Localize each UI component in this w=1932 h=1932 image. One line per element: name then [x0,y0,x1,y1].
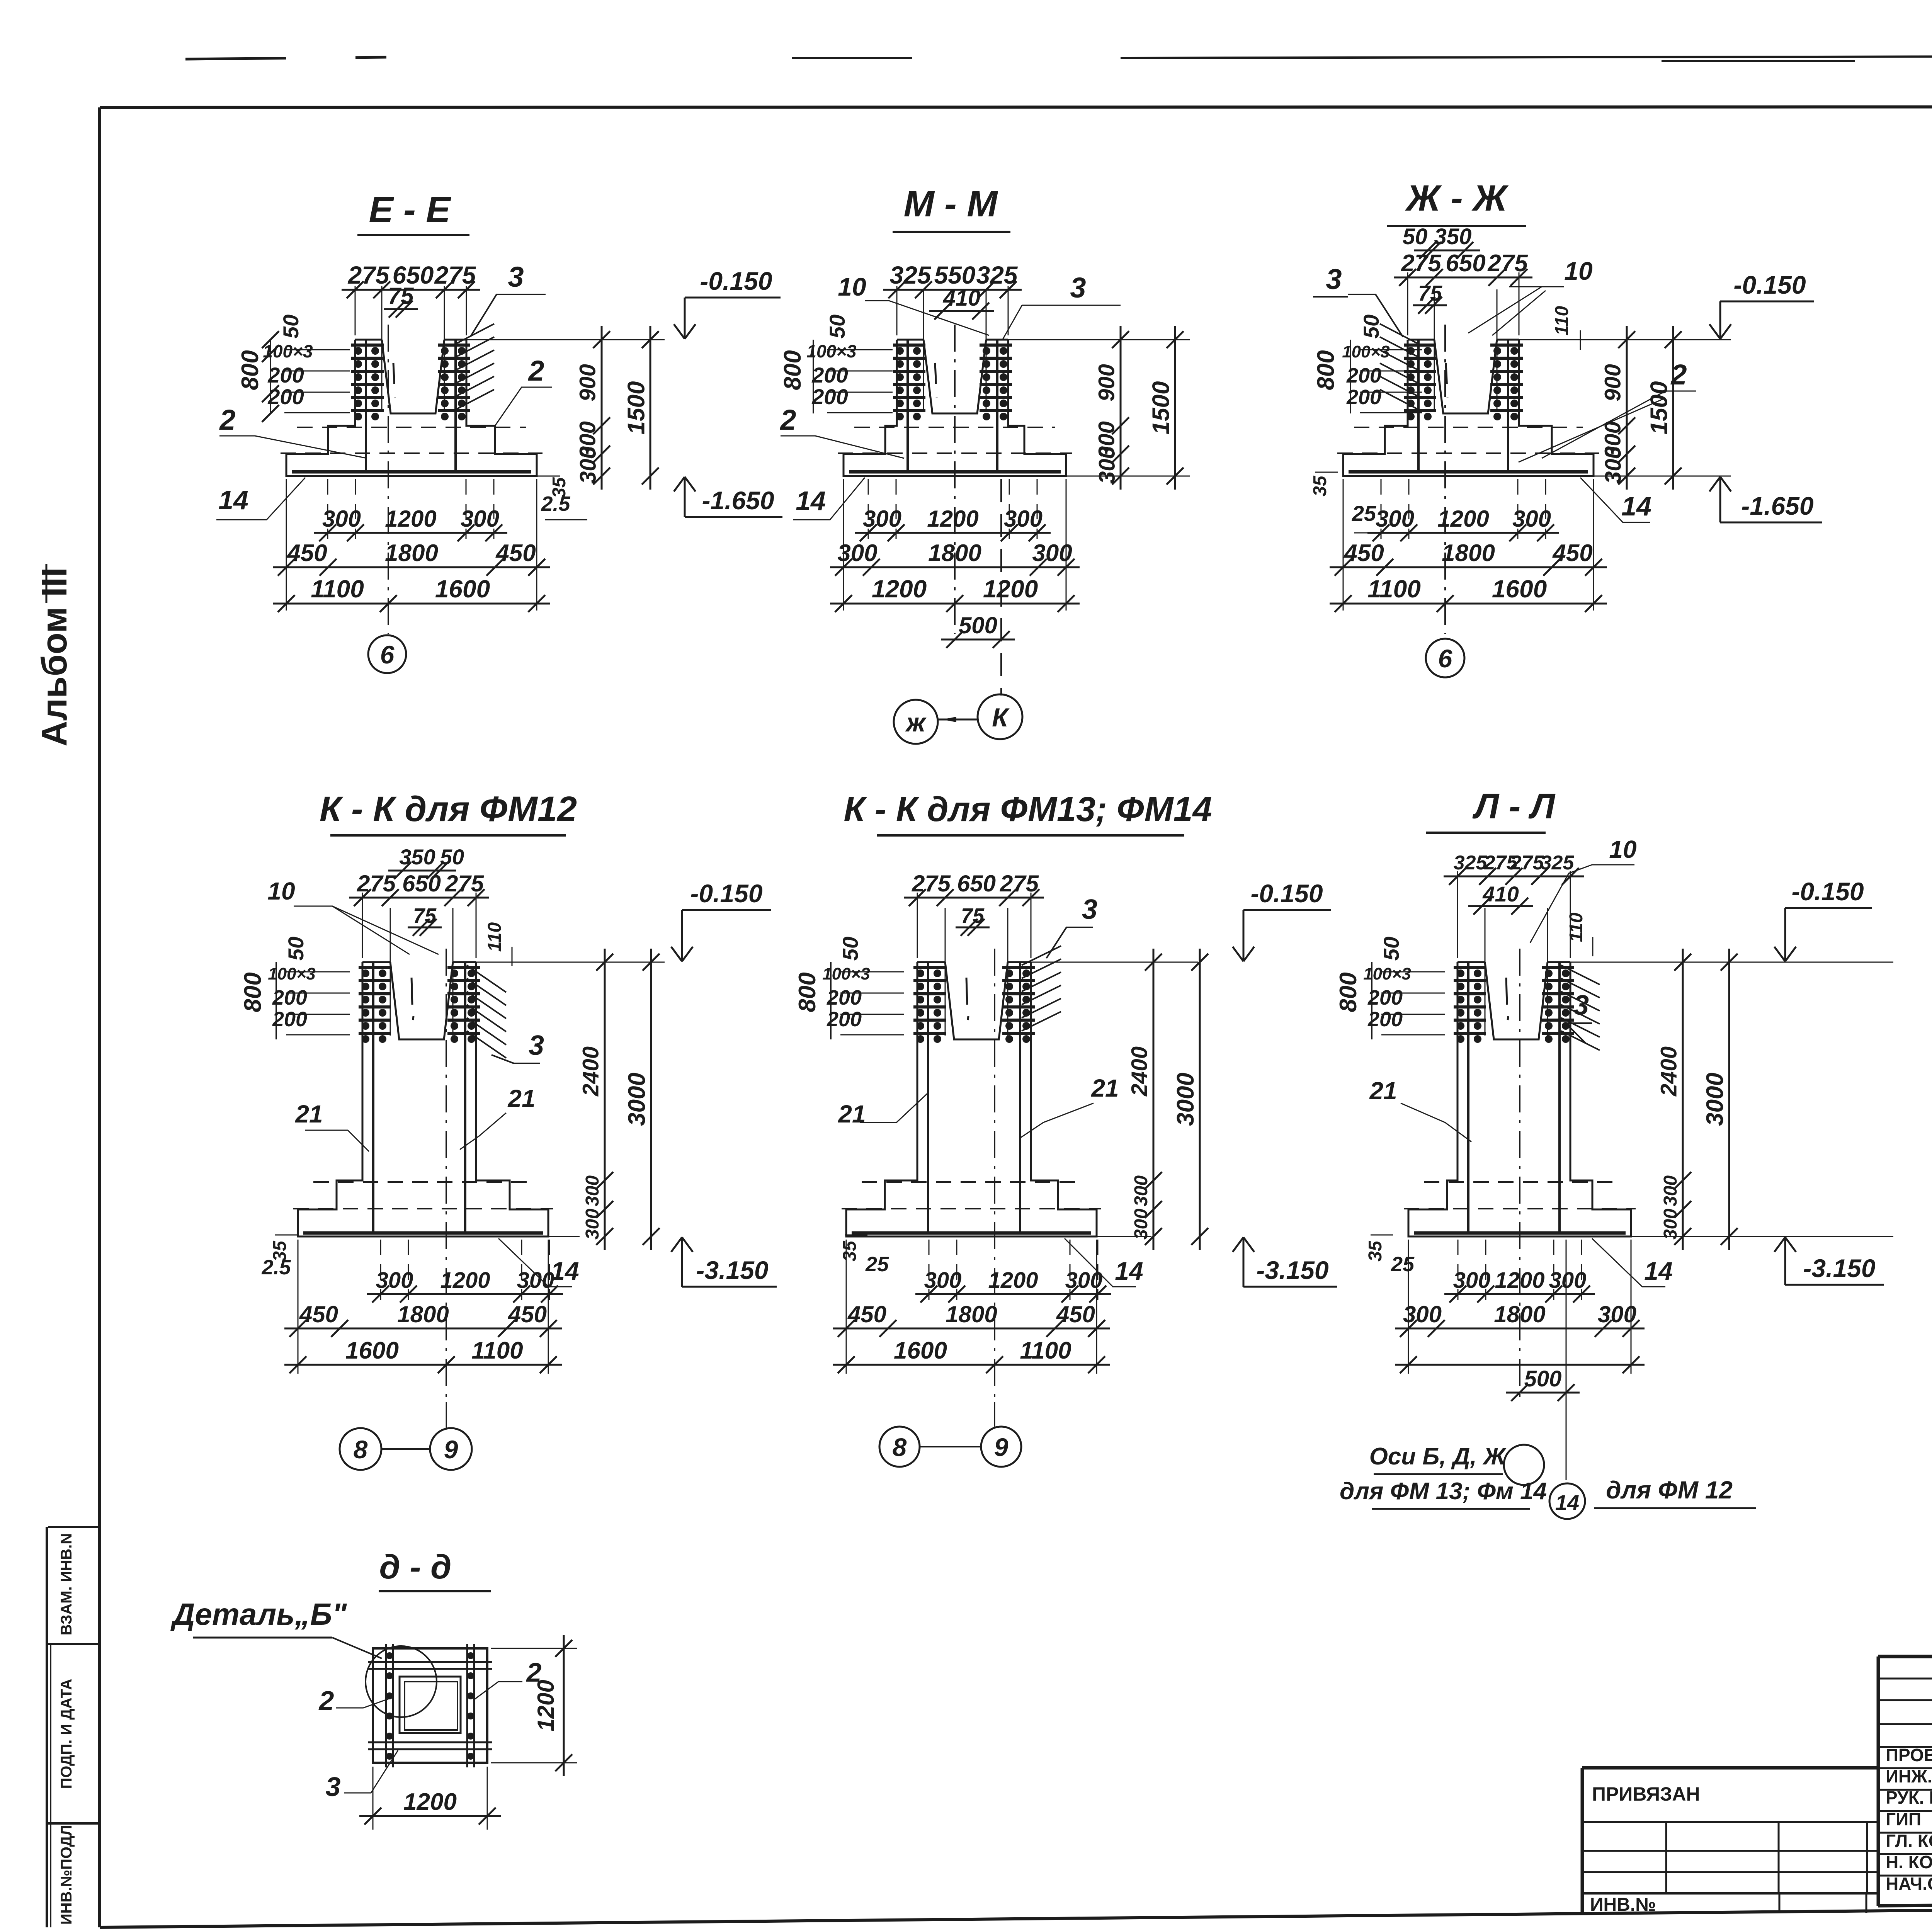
svg-text:75: 75 [388,283,414,309]
svg-text:200: 200 [827,1008,862,1031]
svg-text:д - д: д - д [379,1548,452,1586]
svg-text:100×3: 100×3 [268,964,316,983]
svg-text:275: 275 [357,871,396,896]
svg-text:200: 200 [1367,1008,1403,1031]
svg-text:450: 450 [1343,540,1384,566]
svg-text:3: 3 [326,1772,341,1802]
svg-text:3000: 3000 [1702,1073,1728,1126]
svg-text:350: 350 [1434,224,1472,249]
svg-text:300: 300 [1601,446,1626,484]
svg-text:2400: 2400 [578,1046,604,1097]
svg-text:275: 275 [1401,250,1442,277]
svg-text:ж: ж [905,708,927,737]
svg-text:75: 75 [1418,281,1442,305]
svg-text:200: 200 [827,986,862,1009]
svg-text:ГИП: ГИП [1886,1809,1921,1829]
svg-text:ВЗАМ. ИНВ.N: ВЗАМ. ИНВ.N [58,1533,75,1635]
svg-text:10: 10 [838,272,866,301]
svg-text:110: 110 [1552,306,1572,335]
svg-text:ПРИВЯЗАН: ПРИВЯЗАН [1592,1783,1700,1805]
svg-text:Оси Б, Д, Ж: Оси Б, Д, Ж [1369,1443,1507,1470]
svg-text:25: 25 [865,1253,889,1276]
svg-text:450: 450 [495,540,536,566]
svg-text:2.5: 2.5 [541,492,570,515]
svg-text:для ФМ 13; Фм 14: для ФМ 13; Фм 14 [1340,1478,1547,1505]
svg-text:300: 300 [1376,506,1414,532]
svg-text:ГЛ. КОНСТ: ГЛ. КОНСТ [1886,1831,1932,1851]
svg-text:300: 300 [1660,1175,1681,1206]
svg-text:1500: 1500 [623,381,650,435]
svg-text:1200: 1200 [983,575,1038,603]
svg-text:300: 300 [1131,1175,1151,1206]
svg-text:500: 500 [1524,1366,1562,1391]
svg-text:14: 14 [1115,1257,1143,1285]
svg-text:К: К [992,703,1010,732]
svg-text:650: 650 [957,871,996,896]
svg-text:275: 275 [912,871,951,896]
svg-text:275: 275 [1487,250,1528,277]
svg-text:Н. КОНТР.: Н. КОНТР. [1886,1852,1932,1872]
svg-text:6: 6 [380,640,395,669]
svg-text:300: 300 [376,1268,413,1293]
svg-text:1100: 1100 [1020,1337,1071,1364]
svg-text:300: 300 [461,506,499,532]
svg-text:300: 300 [1004,506,1043,532]
svg-text:2: 2 [318,1685,334,1716]
svg-text:1100: 1100 [1367,575,1421,603]
svg-text:100×3: 100×3 [263,341,313,361]
svg-text:450: 450 [847,1301,886,1327]
svg-text:200: 200 [272,1008,307,1031]
svg-text:110: 110 [485,922,505,952]
svg-text:-1.650: -1.650 [702,486,774,515]
svg-text:10: 10 [1609,835,1636,863]
svg-text:8: 8 [354,1435,368,1464]
svg-text:К - К для ФМ12: К - К для ФМ12 [320,789,577,829]
svg-text:800: 800 [794,972,821,1012]
svg-text:50: 50 [440,845,464,869]
svg-text:1200: 1200 [927,506,978,532]
svg-text:2: 2 [219,404,235,436]
svg-text:2400: 2400 [1656,1046,1682,1097]
svg-text:E - E: E - E [369,189,451,230]
svg-text:3: 3 [1070,272,1086,304]
svg-text:1200: 1200 [403,1789,457,1815]
svg-text:К - К для ФМ13; ФМ14: К - К для ФМ13; ФМ14 [844,790,1212,829]
svg-text:6: 6 [1438,644,1453,673]
svg-text:3000: 3000 [624,1073,650,1126]
svg-text:21: 21 [507,1085,535,1112]
svg-text:50: 50 [284,937,308,961]
svg-text:275: 275 [434,261,476,289]
svg-text:3: 3 [508,261,524,293]
svg-text:2: 2 [527,355,544,387]
svg-text:21: 21 [1091,1074,1119,1102]
svg-text:ИНВ.№ПОДЛ: ИНВ.№ПОДЛ [58,1825,75,1925]
svg-text:1200: 1200 [440,1268,490,1293]
svg-text:200: 200 [1367,986,1403,1009]
svg-text:275: 275 [445,871,485,896]
svg-text:1200: 1200 [1495,1268,1544,1293]
svg-text:35: 35 [1310,475,1330,497]
svg-text:800: 800 [779,350,806,390]
svg-text:21: 21 [295,1100,323,1128]
svg-text:ПОДП. И ДАТА: ПОДП. И ДАТА [58,1679,75,1789]
svg-text:21: 21 [838,1100,866,1128]
svg-text:3: 3 [1326,263,1342,295]
svg-text:1200: 1200 [385,506,436,532]
svg-text:35: 35 [1365,1240,1386,1262]
svg-text:НАЧ.ОТД: НАЧ.ОТД [1886,1874,1932,1894]
svg-text:1600: 1600 [1492,575,1547,603]
svg-text:900: 900 [1600,364,1626,401]
svg-text:50: 50 [825,315,849,338]
svg-text:9: 9 [444,1435,458,1464]
svg-text:25: 25 [1391,1253,1415,1276]
svg-text:-0.150: -0.150 [1733,270,1806,299]
svg-text:3: 3 [1573,990,1589,1021]
svg-text:М - М: М - М [904,184,998,224]
svg-text:1800: 1800 [1442,540,1495,566]
svg-text:1600: 1600 [894,1337,947,1364]
svg-text:1200: 1200 [1437,506,1489,532]
svg-text:300: 300 [1512,506,1551,532]
svg-text:1800: 1800 [1494,1301,1545,1327]
svg-text:450: 450 [286,540,327,566]
svg-text:1800: 1800 [928,540,981,566]
svg-text:200: 200 [1346,386,1381,409]
svg-text:50: 50 [1359,315,1383,338]
svg-text:100×3: 100×3 [822,964,870,983]
svg-text:800: 800 [237,350,264,390]
svg-text:-3.150: -3.150 [1803,1254,1875,1282]
svg-text:1100: 1100 [311,575,364,603]
svg-text:Ж - Ж: Ж - Ж [1405,178,1509,219]
svg-text:300: 300 [1549,1268,1587,1293]
svg-text:10: 10 [1564,257,1593,285]
svg-text:1600: 1600 [435,575,490,603]
svg-text:-0.150: -0.150 [700,267,772,295]
svg-text:1800: 1800 [946,1301,997,1327]
svg-text:8: 8 [893,1433,907,1461]
svg-text:450: 450 [508,1301,547,1327]
svg-text:1800: 1800 [397,1301,449,1327]
svg-text:325: 325 [890,261,932,289]
svg-text:-1.650: -1.650 [1741,492,1813,520]
svg-text:275: 275 [348,261,390,289]
svg-text:2400: 2400 [1127,1046,1152,1097]
svg-text:200: 200 [811,363,848,387]
svg-text:410: 410 [943,286,981,311]
svg-text:100×3: 100×3 [1342,342,1390,361]
svg-text:300: 300 [1660,1209,1681,1240]
svg-text:75: 75 [413,904,437,927]
svg-text:2.5: 2.5 [261,1256,291,1279]
svg-text:35: 35 [840,1240,860,1262]
svg-text:800: 800 [1335,972,1362,1012]
svg-text:300: 300 [1453,1268,1491,1293]
svg-text:200: 200 [811,384,848,409]
svg-text:3000: 3000 [1172,1073,1199,1126]
svg-text:1800: 1800 [385,540,438,566]
svg-text:300: 300 [576,446,601,484]
svg-text:275: 275 [1000,871,1039,896]
svg-text:10: 10 [267,877,295,905]
svg-text:Л - Л: Л - Л [1472,787,1556,826]
svg-text:800: 800 [1313,350,1339,390]
svg-text:1200: 1200 [872,575,927,603]
svg-text:ИНЖ.: ИНЖ. [1886,1766,1932,1786]
svg-text:500: 500 [959,612,997,638]
svg-text:50: 50 [279,315,303,338]
svg-text:50: 50 [838,937,862,961]
svg-text:2: 2 [779,404,796,436]
svg-text:300: 300 [582,1209,603,1240]
svg-text:50: 50 [1379,937,1403,961]
svg-text:300: 300 [582,1175,603,1206]
svg-text:-3.150: -3.150 [1256,1256,1328,1284]
svg-text:1200: 1200 [533,1680,559,1731]
svg-text:300: 300 [863,506,901,532]
svg-text:для ФМ 12: для ФМ 12 [1606,1476,1733,1504]
svg-text:14: 14 [218,485,248,515]
svg-text:275: 275 [1510,852,1544,874]
svg-text:300: 300 [924,1268,962,1293]
svg-text:110: 110 [1566,912,1587,942]
svg-text:325: 325 [1541,852,1575,874]
svg-text:200: 200 [267,384,304,409]
svg-text:650: 650 [402,871,441,896]
svg-text:ПРОВЕР.: ПРОВЕР. [1886,1745,1932,1765]
svg-text:-0.150: -0.150 [1791,877,1864,906]
svg-text:3: 3 [1082,894,1097,925]
svg-text:50: 50 [1403,224,1428,249]
svg-text:-0.150: -0.150 [690,879,762,908]
svg-text:550: 550 [934,261,976,289]
svg-text:9: 9 [994,1433,1009,1461]
svg-text:-3.150: -3.150 [696,1256,768,1284]
svg-text:1100: 1100 [471,1337,523,1364]
svg-text:14: 14 [1621,491,1651,521]
svg-text:ИНВ.№: ИНВ.№ [1590,1895,1656,1915]
svg-text:25: 25 [1352,501,1376,526]
svg-text:410: 410 [1482,882,1519,906]
svg-text:21: 21 [1369,1077,1397,1105]
svg-text:14: 14 [796,486,826,516]
svg-text:200: 200 [1346,364,1381,387]
svg-text:325: 325 [976,261,1018,289]
svg-text:200: 200 [267,363,304,387]
svg-text:300: 300 [1095,446,1120,484]
svg-text:450: 450 [299,1301,338,1327]
svg-text:300: 300 [322,506,361,532]
svg-text:1200: 1200 [988,1268,1038,1293]
svg-text:1600: 1600 [345,1337,399,1364]
svg-text:900: 900 [575,364,600,401]
svg-text:900: 900 [1094,364,1119,401]
svg-text:14: 14 [1644,1257,1672,1285]
svg-text:100×3: 100×3 [1363,964,1411,983]
svg-text:1500: 1500 [1148,381,1175,435]
svg-text:-0.150: -0.150 [1250,879,1323,908]
svg-text:14: 14 [1555,1490,1579,1515]
svg-text:300: 300 [1131,1209,1151,1240]
svg-text:1500: 1500 [1646,381,1673,435]
svg-text:3: 3 [529,1030,544,1061]
svg-text:75: 75 [961,904,985,927]
svg-text:450: 450 [1552,540,1592,566]
svg-text:Альбом III: Альбом III [35,567,74,747]
svg-text:350: 350 [399,845,435,869]
svg-text:14: 14 [551,1257,579,1285]
svg-text:325: 325 [1454,852,1488,874]
svg-text:РУК. ГР.: РУК. ГР. [1886,1787,1932,1808]
svg-text:800: 800 [240,972,266,1012]
svg-text:Деталь„Б": Деталь„Б" [170,1597,347,1631]
svg-text:650: 650 [1446,250,1485,277]
svg-text:450: 450 [1056,1301,1095,1327]
svg-text:200: 200 [272,986,307,1009]
